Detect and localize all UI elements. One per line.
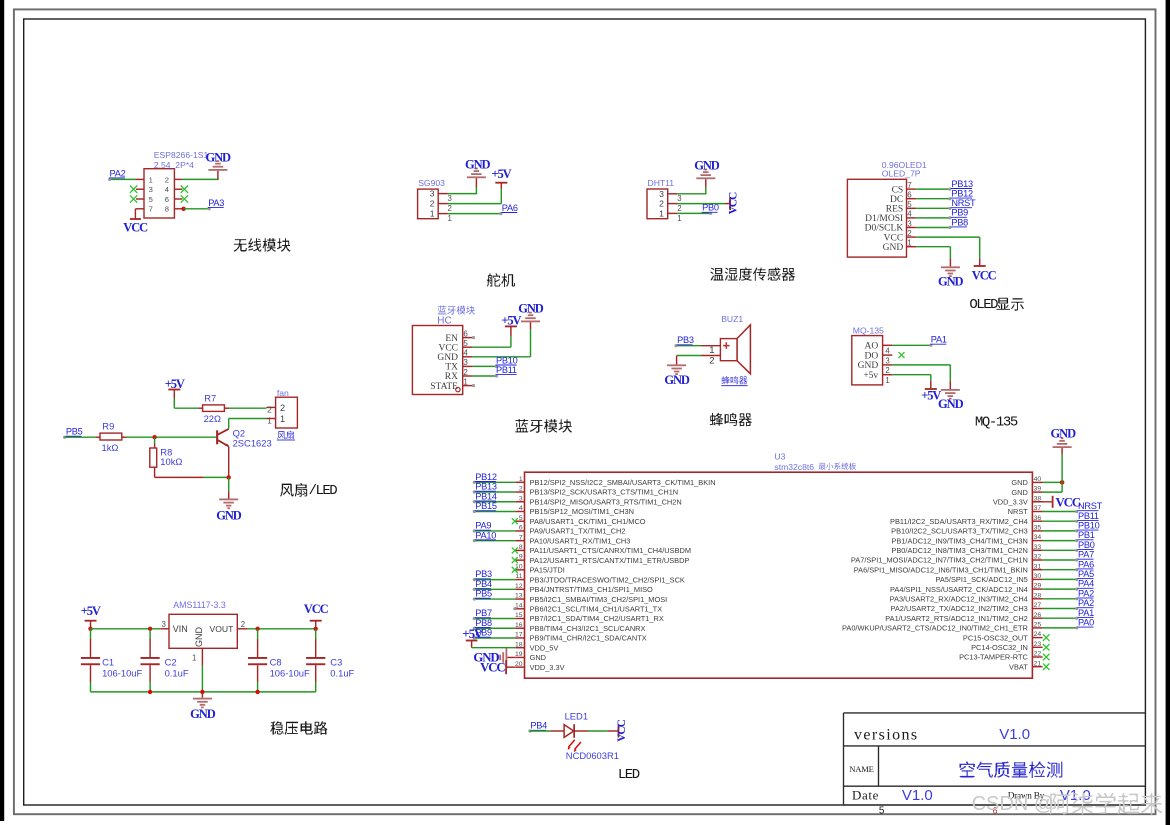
svg-text:GND: GND xyxy=(858,361,879,371)
svg-text:VCC: VCC xyxy=(728,192,740,214)
ground GND (wireless) xyxy=(205,150,231,179)
svg-text:PB0: PB0 xyxy=(1078,540,1095,550)
node PA9 xyxy=(475,521,492,531)
wire R8 to emitter rail xyxy=(155,467,229,477)
power VCC (pin38, rotated) xyxy=(1032,495,1080,509)
svg-text:ESP8266-1S1: ESP8266-1S1 xyxy=(154,150,209,160)
node PA3 xyxy=(208,198,225,208)
wire pin32 PA7 xyxy=(1043,558,1079,561)
wire pin33 PB0 xyxy=(1043,549,1079,552)
title block table xyxy=(844,713,1146,805)
svg-text:PA10: PA10 xyxy=(475,530,496,540)
transistor Q2 2SC1623 xyxy=(216,429,229,476)
buzzer BUZ1 xyxy=(702,325,751,374)
junction GND pins 40/39 xyxy=(1060,480,1065,485)
wire fan pin1 to Q2 collector xyxy=(229,419,267,429)
svg-text:+5V: +5V xyxy=(491,167,511,181)
svg-text:PB0: PB0 xyxy=(702,203,719,213)
svg-text:13: 13 xyxy=(515,593,523,600)
label Q2 xyxy=(233,428,246,439)
section title 风扇/LED xyxy=(280,483,337,499)
no-connect X pin23 xyxy=(1043,644,1050,651)
wire AO PA1 xyxy=(892,344,932,347)
svg-text:D1/MOSI: D1/MOSI xyxy=(865,214,903,224)
svg-text:PB13: PB13 xyxy=(475,482,497,492)
svg-text:22: 22 xyxy=(1034,651,1042,658)
svg-text:1kΩ: 1kΩ xyxy=(102,442,119,453)
no-connect X pin22 xyxy=(1043,654,1050,661)
svg-text:PA2: PA2 xyxy=(1078,598,1094,608)
svg-text:/LED: /LED xyxy=(309,483,338,499)
svg-text:3: 3 xyxy=(162,620,166,629)
svg-text:PA2/USART2_TX/ADC12_IN2/TIM2_C: PA2/USART2_TX/ADC12_IN2/TIM2_CH3 xyxy=(890,604,1027,613)
svg-text:RX: RX xyxy=(445,372,458,382)
node PB10 xyxy=(1078,521,1100,531)
wire PB8 xyxy=(473,627,516,630)
svg-text:PB3: PB3 xyxy=(677,335,694,345)
svg-text:AMS1117-3.3: AMS1117-3.3 xyxy=(173,600,226,610)
svg-text:6: 6 xyxy=(519,525,523,532)
wire pin28 PA2 xyxy=(1043,597,1079,600)
node PA10 xyxy=(475,530,496,540)
svg-text:3: 3 xyxy=(885,356,889,365)
part name DHT11 xyxy=(648,178,675,188)
node PB0 xyxy=(702,203,719,213)
svg-text:RES: RES xyxy=(886,205,903,215)
section title 蜂鸣器 xyxy=(710,413,752,426)
wire PB3 xyxy=(473,578,516,581)
svg-text:GND: GND xyxy=(883,243,904,253)
svg-text:GND: GND xyxy=(1051,426,1077,440)
wire junction to R8 xyxy=(154,437,156,448)
wire PB5 to R9 xyxy=(63,436,100,439)
svg-text:1: 1 xyxy=(267,415,272,425)
svg-text:11: 11 xyxy=(516,573,523,580)
svg-text:6: 6 xyxy=(463,329,468,338)
svg-text:29: 29 xyxy=(1034,583,1042,590)
junction +5V/C1 xyxy=(88,627,92,631)
node PB12 xyxy=(951,189,973,199)
field versions xyxy=(854,727,919,744)
svg-text:3: 3 xyxy=(659,189,664,199)
wire bottom rail xyxy=(91,691,316,693)
svg-text:6: 6 xyxy=(907,191,912,200)
sensor MQ-135 body xyxy=(852,336,893,385)
svg-text:30: 30 xyxy=(1034,573,1042,580)
svg-text:+5V: +5V xyxy=(921,389,941,403)
svg-text:4: 4 xyxy=(165,185,169,194)
svg-text:BUZ1: BUZ1 xyxy=(721,314,743,324)
svg-text:21: 21 xyxy=(1034,660,1042,667)
svg-text:18: 18 xyxy=(515,641,523,648)
led LED1 NCD0603R1 xyxy=(564,724,581,752)
junction VCC/C3 xyxy=(314,627,318,631)
wire pin35 PB10 xyxy=(1043,529,1079,532)
node PA0 xyxy=(1078,618,1095,628)
power +5V (regulator input) xyxy=(81,604,101,629)
connector DHT11 (temp/humidity sensor) xyxy=(647,189,682,223)
regulator AMS1117-3.3 xyxy=(162,614,246,662)
svg-text:PB6/I2C1_SCL/TIM4_CH1/USART1_T: PB6/I2C1_SCL/TIM4_CH1/USART1_TX xyxy=(530,604,663,613)
wire pin2 to VCC xyxy=(677,203,729,205)
wire pin2 to VCC xyxy=(916,237,980,266)
ground GND (OLED) xyxy=(938,266,964,288)
wire pin39 GND xyxy=(1043,455,1063,493)
svg-text:36: 36 xyxy=(1034,515,1042,522)
no-connect X pin8 xyxy=(512,547,518,553)
connector fan xyxy=(267,397,298,428)
svg-text:NRST: NRST xyxy=(1078,501,1103,511)
svg-text:GND: GND xyxy=(938,274,964,288)
svg-text:PB15/SP12_MOSI/TIM1_CH3N: PB15/SP12_MOSI/TIM1_CH3N xyxy=(530,507,634,516)
junction C2 bottom xyxy=(148,690,152,694)
part name MQ-135 xyxy=(853,325,884,335)
svg-text:32: 32 xyxy=(1034,554,1042,561)
ground GND (MQ-135) xyxy=(938,389,964,411)
part name ESP8266-1S1 xyxy=(154,150,209,160)
wire pin5 to +5V xyxy=(472,326,511,347)
node NRST xyxy=(1078,501,1103,511)
svg-text:C1: C1 xyxy=(102,657,114,668)
svg-text:4: 4 xyxy=(907,210,912,219)
wire R7 to fan pin2 xyxy=(224,407,266,409)
svg-text:PB3: PB3 xyxy=(475,569,492,579)
node PB11 xyxy=(496,365,517,375)
wire PB13 xyxy=(473,490,516,493)
field Date xyxy=(852,787,879,802)
no-connect X pin10 xyxy=(512,567,518,573)
no-connect X pin3 xyxy=(130,186,137,193)
no-connect X pin9 xyxy=(512,557,518,563)
svg-text:VBAT: VBAT xyxy=(1009,662,1028,671)
value 1kΩ xyxy=(102,442,119,453)
svg-text:PB13/SPI2_SCK/USART3_CTS/TIM1_: PB13/SPI2_SCK/USART3_CTS/TIM1_CH1N xyxy=(530,488,679,497)
section title 无线模块 xyxy=(234,238,291,252)
svg-text:7: 7 xyxy=(149,205,153,214)
no-connect X pin6 xyxy=(181,195,188,202)
svg-text:2: 2 xyxy=(267,404,272,414)
label C8 xyxy=(270,657,282,668)
node PB9 xyxy=(951,208,968,218)
wire PB4 to LED xyxy=(528,729,564,732)
svg-text:2: 2 xyxy=(165,175,169,184)
svg-text:9: 9 xyxy=(519,554,523,561)
svg-text:5: 5 xyxy=(463,339,468,348)
svg-text:2: 2 xyxy=(463,368,468,377)
svg-text:1: 1 xyxy=(280,414,285,424)
wire pin7 PB13 xyxy=(916,188,951,191)
svg-text:PA11/USART1_CTS/CANRX/TIM1_CH4: PA11/USART1_CTS/CANRX/TIM1_CH4/USBDM xyxy=(530,546,691,555)
node PA2 xyxy=(1078,598,1095,608)
zone number 6 (red) xyxy=(992,806,997,816)
node PB5 xyxy=(475,589,492,599)
ground GND (bluetooth) xyxy=(518,301,544,322)
wire pin3 to GND xyxy=(677,193,706,195)
svg-text:LED1: LED1 xyxy=(565,711,588,722)
section title 舵机 xyxy=(487,273,515,287)
svg-text:DHT11: DHT11 xyxy=(648,178,675,188)
svg-text:VCC: VCC xyxy=(304,602,329,616)
wire pin29 PA4 xyxy=(1043,588,1079,591)
label R8 xyxy=(160,447,172,458)
no-connect X pin21 xyxy=(1043,663,1050,670)
capacitor C8 106-10uF xyxy=(248,629,267,692)
svg-text:CS: CS xyxy=(892,185,904,195)
wire pin36 PB11 xyxy=(1043,520,1079,523)
svg-text:PB11: PB11 xyxy=(496,365,517,375)
svg-text:VCC: VCC xyxy=(616,719,628,741)
svg-text:PC14-OSC32_IN: PC14-OSC32_IN xyxy=(971,643,1028,652)
svg-text:1: 1 xyxy=(677,214,681,223)
svg-text:6: 6 xyxy=(165,195,169,204)
wire pin1 PB0 xyxy=(677,212,712,215)
zone number 5 xyxy=(879,806,885,817)
wire +5V to R7 xyxy=(174,399,202,409)
junction C8 bottom xyxy=(255,690,259,694)
svg-text:VDD_3.3V: VDD_3.3V xyxy=(530,663,565,672)
svg-text:28: 28 xyxy=(1034,592,1042,599)
node PB13 xyxy=(475,482,497,492)
wire pin3 to GND xyxy=(448,193,477,195)
part name fan xyxy=(277,388,289,398)
svg-text:PA6: PA6 xyxy=(1078,559,1094,569)
junction R8 top xyxy=(152,435,156,439)
wire pin8 PA3 xyxy=(184,207,211,210)
wire PB5 xyxy=(473,597,516,600)
node PB12 xyxy=(475,472,497,482)
svg-text:2: 2 xyxy=(677,204,681,213)
no-connect X pin5 xyxy=(130,195,137,202)
svg-text:PA8/USART1_CK/TIM1_CH1/MCO: PA8/USART1_CK/TIM1_CH1/MCO xyxy=(530,517,646,526)
svg-text:AO: AO xyxy=(864,342,878,352)
svg-text:35: 35 xyxy=(1034,525,1042,532)
value V1.0 (drawn by) xyxy=(1060,787,1091,804)
svg-text:R7: R7 xyxy=(204,392,216,403)
svg-text:PC13-TAMPER-RTC: PC13-TAMPER-RTC xyxy=(959,653,1028,662)
node PA5 xyxy=(1078,569,1095,579)
section title MQ-135 xyxy=(975,415,1018,431)
svg-text:PB9/TIM4_CHR/I2C1_SDA/CANTX: PB9/TIM4_CHR/I2C1_SDA/CANTX xyxy=(530,634,647,643)
svg-text:PB10: PB10 xyxy=(496,355,518,365)
wire PB15 xyxy=(473,510,516,513)
node PA2 xyxy=(109,168,126,178)
svg-text:2: 2 xyxy=(448,204,452,213)
svg-text:7: 7 xyxy=(519,534,523,541)
svg-text:GND: GND xyxy=(1011,478,1027,487)
svg-text:PA0: PA0 xyxy=(1078,618,1094,628)
svg-text:7: 7 xyxy=(907,181,912,190)
svg-text:2: 2 xyxy=(659,199,664,209)
wire PB12 xyxy=(473,481,516,484)
svg-text:PA1/USART2_RTS/ADC12_IN1/TIM2_: PA1/USART2_RTS/ADC12_IN1/TIM2_CH2 xyxy=(885,614,1028,623)
wire PB4 xyxy=(473,588,516,591)
connector SG903 (servo) xyxy=(418,189,452,223)
svg-text:PA4/SPI1_NSS/USART2_CK/ADC12_I: PA4/SPI1_NSS/USART2_CK/ADC12_IN4 xyxy=(890,585,1028,594)
svg-text:1: 1 xyxy=(519,476,523,483)
wire pin4 PB9 xyxy=(916,216,951,219)
svg-text:NCD0603R1: NCD0603R1 xyxy=(566,750,619,761)
mcu U3 stm32c8t6 minimal system board body xyxy=(515,472,1043,678)
power VCC (regulator output) xyxy=(304,602,329,629)
svg-text:VOUT: VOUT xyxy=(210,624,235,634)
value 106-10uF (C8) xyxy=(270,667,310,678)
wire AMS1117 GND pin xyxy=(201,648,203,692)
svg-text:EN: EN xyxy=(445,334,458,344)
svg-text:VCC: VCC xyxy=(438,343,458,353)
svg-text:R9: R9 xyxy=(102,421,114,432)
wire pin1 PB3 xyxy=(674,344,701,347)
ground GND (servo) xyxy=(465,157,491,193)
svg-text:PB8/TIM4_CH3/I2C1_SCL/CANRX: PB8/TIM4_CH3/I2C1_SCL/CANRX xyxy=(530,624,646,633)
svg-text:C3: C3 xyxy=(330,657,342,668)
svg-text:5: 5 xyxy=(519,515,523,522)
wire pin37 NRST xyxy=(1043,510,1079,513)
svg-text:VCC: VCC xyxy=(480,660,505,674)
node PB1 xyxy=(1078,530,1095,540)
svg-text:PB14: PB14 xyxy=(475,491,497,501)
svg-text:4: 4 xyxy=(463,349,468,358)
svg-text:PA3/USART2_RX/ADC12_IN3/TIM2_C: PA3/USART2_RX/ADC12_IN3/TIM2_CH4 xyxy=(890,595,1028,604)
value 0.1uF (C2) xyxy=(165,667,189,678)
svg-text:3: 3 xyxy=(430,189,435,199)
svg-text:GND: GND xyxy=(1011,488,1027,497)
wire pin18 xyxy=(472,647,515,649)
svg-text:2: 2 xyxy=(709,355,714,366)
svg-text:4: 4 xyxy=(885,347,890,356)
wire pin1 PA6 xyxy=(448,212,503,215)
svg-text:PB9: PB9 xyxy=(951,208,968,218)
svg-text:5: 5 xyxy=(149,195,153,204)
svg-text:22Ω: 22Ω xyxy=(204,413,221,424)
svg-text:PB14/SPI2_MISO/USART3_RTS/TIM1: PB14/SPI2_MISO/USART3_RTS/TIM1_CH2N xyxy=(530,497,682,506)
node PB8 xyxy=(951,217,968,227)
svg-text:GND: GND xyxy=(437,353,458,363)
svg-text:2.54_2P*4: 2.54_2P*4 xyxy=(154,160,194,170)
svg-text:19: 19 xyxy=(515,651,523,658)
wire PB14 xyxy=(473,500,516,503)
svg-text:1: 1 xyxy=(907,239,912,248)
display 0.96OLED1 OLED_7P body xyxy=(847,179,916,257)
svg-text:PA5/SPI1_SCK/ADC12_IN5: PA5/SPI1_SCK/ADC12_IN5 xyxy=(936,575,1028,584)
title 空气质量检测 xyxy=(959,762,1062,778)
part name SG903 xyxy=(418,178,445,188)
svg-text:8: 8 xyxy=(519,544,523,551)
capacitor C2 0.1uF xyxy=(141,629,160,692)
label R9 xyxy=(102,421,114,432)
svg-text:PB0/ADC12_IN8/TIM3_CH3/TIM1_CH: PB0/ADC12_IN8/TIM3_CH3/TIM1_CH2N xyxy=(891,546,1027,555)
node PB9 xyxy=(475,628,492,638)
svg-text:GND: GND xyxy=(664,373,690,387)
watermark CSDN @阿柒学起来 xyxy=(972,793,1163,815)
no-connect X pin24 xyxy=(1043,634,1050,641)
no-connect X pin4 xyxy=(181,186,188,193)
svg-text:PB7: PB7 xyxy=(475,608,492,618)
value V1.0 (date) xyxy=(902,787,933,804)
svg-text:PB15: PB15 xyxy=(475,501,497,511)
svg-text:C2: C2 xyxy=(165,657,177,668)
svg-text:PB3/JTDO/TRACESWO/TIM2_CH2/SPI: PB3/JTDO/TRACESWO/TIM2_CH2/SPI1_SCK xyxy=(530,575,685,584)
part name BUZ1 xyxy=(721,314,743,324)
svg-text:DC: DC xyxy=(890,195,903,205)
capacitor C3 0.1uF xyxy=(306,629,325,692)
svg-text:GND: GND xyxy=(205,150,231,164)
svg-text:2: 2 xyxy=(885,366,889,375)
no-connect X pin5 xyxy=(512,518,518,524)
wire junction to GND xyxy=(228,477,230,498)
svg-text:PB12: PB12 xyxy=(475,472,497,482)
power VCC (OLED) xyxy=(972,265,997,282)
node PB3 xyxy=(475,569,492,579)
svg-text:VCC: VCC xyxy=(972,269,997,283)
svg-text:OLED: OLED xyxy=(969,297,998,313)
svg-text:2: 2 xyxy=(241,620,245,629)
label C1 xyxy=(102,657,114,668)
wire pin2 to GND xyxy=(677,356,702,365)
svg-text:3: 3 xyxy=(149,185,153,194)
svg-text:1: 1 xyxy=(709,345,714,356)
wire pin2 to +5V xyxy=(448,189,501,204)
svg-text:31: 31 xyxy=(1034,563,1042,570)
node PB4 xyxy=(475,579,492,589)
resistor R7 xyxy=(203,405,225,412)
value 蜂鸣器 (small) xyxy=(721,376,747,385)
svg-text:PB4: PB4 xyxy=(530,721,547,731)
wire pin34 PB1 xyxy=(1043,539,1079,542)
svg-text:PA1: PA1 xyxy=(1078,608,1094,618)
svg-text:PB4: PB4 xyxy=(475,579,492,589)
svg-text:2: 2 xyxy=(280,403,285,413)
node PB7 xyxy=(475,608,492,618)
wire pin40 GND xyxy=(1043,481,1063,483)
svg-text:+5v: +5v xyxy=(863,371,878,381)
svg-text:3: 3 xyxy=(907,219,912,228)
svg-text:VCC: VCC xyxy=(1056,495,1081,509)
svg-text:0.1uF: 0.1uF xyxy=(165,667,189,678)
ground GND (pin19, rotated) xyxy=(473,648,515,667)
svg-text:34: 34 xyxy=(1034,534,1042,541)
node NRST xyxy=(951,198,976,208)
svg-text:PB5/I2C1_SMBAI/TIM3_CH2/SPI1_M: PB5/I2C1_SMBAI/TIM3_CH2/SPI1_MOSI xyxy=(530,595,668,604)
power +5V (MQ-135, inverted) xyxy=(921,388,941,403)
value 106-10uF (C1) xyxy=(102,667,142,678)
svg-text:PB7/I2C1_SDA/TIM4_CH2/USART1_R: PB7/I2C1_SDA/TIM4_CH2/USART1_RX xyxy=(530,614,664,623)
svg-text:PA6/SPI1_MISO/ADC12_IN6/TIM3_C: PA6/SPI1_MISO/ADC12_IN6/TIM3_CH1/TIM1_BK… xyxy=(854,565,1028,574)
wire pin2 PB11 xyxy=(472,374,498,377)
node PB10 xyxy=(496,355,518,365)
node PB13 xyxy=(951,179,973,189)
svg-text:GND: GND xyxy=(465,157,491,171)
svg-text:1: 1 xyxy=(448,214,452,223)
svg-text:PA10/USART1_RX/TIM1_CH3: PA10/USART1_RX/TIM1_CH3 xyxy=(530,536,631,545)
svg-text:GND: GND xyxy=(694,158,720,172)
wire pin7 to VCC xyxy=(134,209,137,219)
wire VOUT to VCC xyxy=(237,628,315,630)
svg-text:Date: Date xyxy=(852,787,879,802)
svg-text:PC15-OSC32_OUT: PC15-OSC32_OUT xyxy=(963,633,1028,642)
svg-text:fan: fan xyxy=(277,388,289,398)
svg-text:20: 20 xyxy=(515,661,523,668)
svg-text:V1.0: V1.0 xyxy=(999,726,1030,743)
svg-text:PA15/JTDI: PA15/JTDI xyxy=(530,566,565,575)
stub pin14 unconnected xyxy=(513,607,516,610)
svg-text:PA7/SPI1_MOSI/ADC12_IN7/TIM3_C: PA7/SPI1_MOSI/ADC12_IN7/TIM3_CH2/TIM1_CH… xyxy=(851,556,1028,565)
part name 蓝牙模块 (small) xyxy=(438,306,475,315)
node PA2 xyxy=(1078,588,1095,598)
wire pin3 PB10 xyxy=(472,365,498,368)
svg-text:STATE: STATE xyxy=(430,382,458,392)
value NCD0603R1 xyxy=(566,750,619,761)
svg-text:5: 5 xyxy=(879,806,885,817)
